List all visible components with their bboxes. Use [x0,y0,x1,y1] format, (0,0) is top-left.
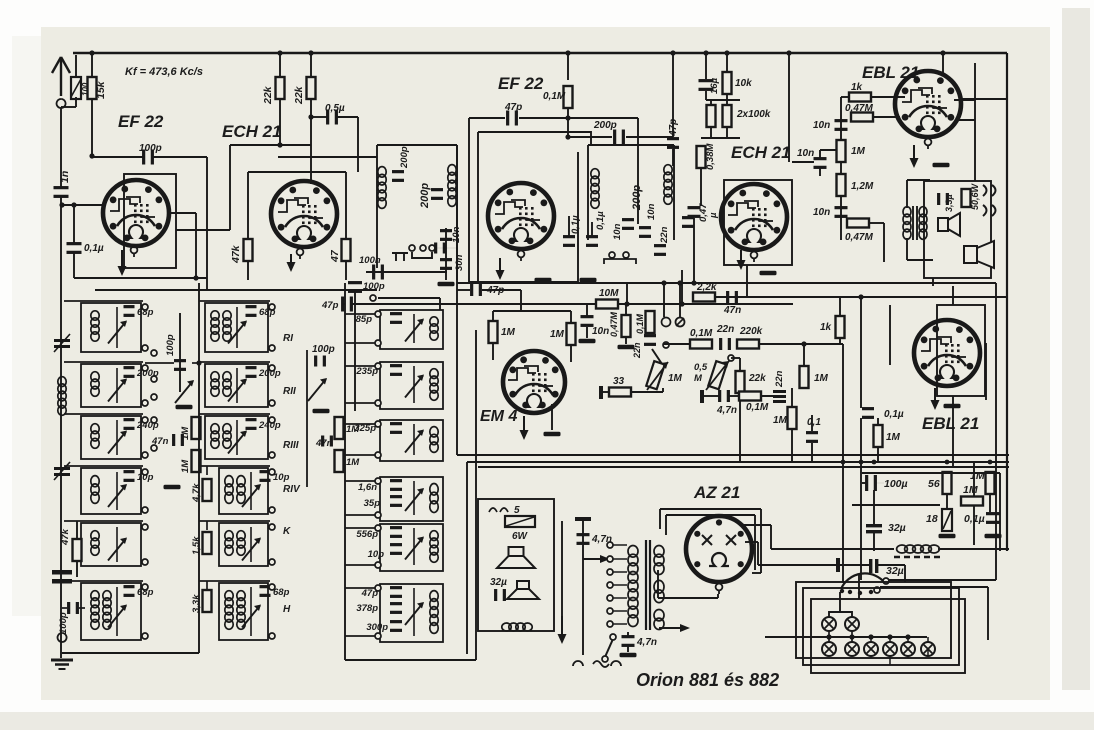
wire [62,607,67,609]
resistor 1M band b [192,450,201,472]
wire padder link [345,514,375,516]
padder terminal [375,311,381,317]
svg-text:0,1M: 0,1M [635,313,645,334]
coil band L5 [91,531,99,556]
capacitor padder 3 [390,422,402,434]
svg-text:16µ: 16µ [709,77,720,94]
wire tap [613,558,627,560]
coil transformer sec heater [654,546,664,575]
svg-text:0,47M: 0,47M [845,103,873,114]
trimmer padder 6 [405,602,424,625]
end bar mains [836,558,840,572]
mains plug symbols [573,661,621,667]
wire 15k to grid line [91,99,93,157]
svg-text:0,1µ: 0,1µ [964,513,985,525]
band terminal [142,584,148,590]
resistor 1M em4 a [489,321,498,343]
padder terminal [375,585,381,591]
capacitor pad feed [348,281,362,293]
wire [792,161,814,163]
junction [193,275,198,280]
svg-text:1k: 1k [851,82,863,93]
wire [520,290,522,311]
switch contact [623,252,629,258]
wire [116,368,118,403]
wire [116,472,118,510]
potentiometer 0,5M tone [706,361,729,390]
wire [770,525,772,549]
junction top bus [565,50,570,55]
wire tap [613,610,627,612]
wire [195,213,197,278]
primary tap 3 [607,569,613,575]
svg-text:1M: 1M [346,457,360,468]
capacitor 300p [390,620,402,632]
junction lamp feed [905,634,910,639]
wire core b [916,206,918,240]
loudspeaker small [938,213,960,236]
wire lamp stub [927,648,929,656]
capacitor padder 6 [390,586,402,598]
box band filter R6 [219,583,268,640]
wire [862,482,866,484]
jack contact b [983,205,996,216]
box speaker unit [924,181,991,278]
wire [567,108,569,137]
wire [987,587,989,640]
wire lamp stub [907,656,909,658]
svg-text:10n: 10n [797,148,814,159]
capacitor 32u electrolytic b [869,559,878,573]
svg-text:4,7n: 4,7n [716,405,737,416]
wire [116,420,118,455]
ground 18 [939,534,956,539]
capacitor 200p IF1 prim [392,170,404,182]
capacitor 240p R3 [246,418,257,430]
wire [878,564,905,566]
wire right rail long [995,283,997,580]
resistor 100k a [707,105,716,127]
wire [625,337,627,344]
wire [681,270,683,304]
tube EM4 body [503,351,565,413]
wire [236,368,238,403]
wire [236,420,238,455]
wire [591,222,593,236]
wire grid cap left [92,156,143,158]
junction low bus [872,460,877,465]
wire osc link b [192,362,199,364]
trimmer band L2 [108,379,127,402]
junction top bus [89,50,94,55]
capacitor 0,5u [326,110,338,125]
svg-text:220k: 220k [739,326,763,337]
resistor 50,6W field [962,189,971,207]
wire az21 out a [744,524,771,526]
wire [345,261,347,280]
svg-text:1n: 1n [59,171,71,183]
capacitor 100p [142,150,154,165]
wire jack drop [663,283,665,317]
wire screen feed down [206,157,208,290]
primary tap 2 [607,556,613,562]
wire [754,515,756,570]
padder terminal [375,512,381,518]
end bar mains top [575,517,591,521]
junction low bus [841,460,846,465]
wire [116,307,118,348]
wire psu top b [862,472,1000,474]
svg-text:100µ: 100µ [884,478,908,490]
capacitor 47p top [506,111,518,126]
box dial lamps outer [796,582,951,658]
svg-text:RII: RII [283,386,296,397]
trimmer band R3 [228,431,247,454]
tube key EF22 no2 [518,251,525,261]
box band filter L4 [81,468,141,514]
wire [61,106,76,108]
capacitor 68p R1 [246,305,257,317]
wire [570,345,572,362]
svg-text:56: 56 [928,478,940,490]
cathode arrow EF22 no1 [118,250,127,276]
capacitor 47p em4 [470,284,482,296]
wire [413,366,415,403]
coil band R6 secondary [237,591,245,630]
capacitor 200p R2 [246,366,257,378]
junction antenna rail [59,202,64,207]
wire [873,533,875,551]
svg-text:EM 4: EM 4 [480,408,517,425]
wire [62,652,199,654]
junction top bus [308,50,313,55]
wire [758,564,869,566]
cathode arrow EBL21 no2 [931,388,940,410]
wire [877,418,879,425]
wire [873,116,900,118]
wire [568,216,570,236]
trimmer band L1 [108,321,127,344]
wire az21 top [660,508,761,510]
junction lamp feed [849,634,854,639]
svg-text:32µ: 32µ [886,565,904,577]
junction [679,301,684,306]
switch terminal [151,376,157,382]
junction [565,134,570,139]
wire ebl drop b [860,418,862,580]
wire [811,415,813,431]
box EF22 no2 shield [469,118,638,282]
wire 47p drop [672,53,674,137]
capacitor 10p R4 [260,470,271,482]
box band filter R3 [205,416,268,459]
wire [717,594,719,598]
junction [196,360,201,365]
coil padder 6 [430,591,438,634]
wire [946,494,948,509]
wire [873,490,875,524]
wire [73,253,75,278]
wire [413,314,415,343]
resistor 10k [723,72,732,94]
box band filter R1 [205,303,268,352]
wire [413,588,415,636]
tube key AZ21 [716,584,723,594]
capacitor 10n IF2 [622,218,634,230]
svg-text:300p: 300p [366,622,388,633]
arrow field [558,616,567,644]
switch bar IF1 [392,252,432,261]
coil band R3 secondary [223,424,231,449]
wire resistor feed [206,466,208,475]
capacitor 47n band [172,434,184,446]
svg-text:10n: 10n [646,203,657,220]
wire pin [954,99,975,101]
wire HT out [771,548,860,550]
svg-text:4,7n: 4,7n [636,637,657,648]
svg-text:100p: 100p [363,281,385,292]
coil padder 4 [430,484,438,513]
capacitor 1n antenna series [54,186,69,198]
wire ECH21 no2 return [746,265,748,297]
svg-text:4,7k: 4,7k [191,483,202,503]
svg-text:85p: 85p [356,314,373,325]
wire [739,358,741,361]
svg-text:1M: 1M [851,146,866,157]
svg-text:10p: 10p [273,472,290,483]
ground 0,1u psu [985,534,1002,539]
wire padder link [345,423,375,425]
padder terminal [375,400,381,406]
coil output transformer secondary [919,207,927,240]
coil band R1 primary [211,311,219,341]
switch arc contact dots [840,589,873,595]
wire az21 out b [745,541,758,543]
wire [907,179,930,181]
left pale strip [12,36,41,616]
band terminal [142,400,148,406]
capacitor padder 4 [390,479,402,491]
capacitor 0,1u a [563,235,575,247]
wire lamp stub [927,637,929,642]
wire [840,97,842,101]
wire [999,473,1001,551]
svg-text:47p: 47p [361,588,379,599]
wire antenna/ground rail [60,197,62,658]
tube ECH21 no1 (mixer-oscillator) [271,181,337,247]
band terminal [269,559,275,565]
wire antenna lead [60,108,62,187]
wire [739,361,741,371]
wire band row link [199,520,270,522]
svg-text:200p: 200p [419,183,431,209]
coupling hooks [489,508,508,512]
wire psu mid [852,504,940,506]
primary tap 7 [607,621,613,627]
dial lamp 3 [822,642,836,656]
padder terminal [375,452,381,458]
coil band R4 primary [225,476,233,504]
wire tap [613,544,627,546]
svg-text:0,1µ: 0,1µ [570,215,581,234]
capacitor 100p ant [67,602,79,614]
arrow rect out [680,624,690,632]
box band filter L5 [81,523,141,566]
svg-text:18: 18 [926,513,938,525]
wire [492,311,494,321]
svg-text:0,47: 0,47 [698,203,709,222]
hook antenna bottom [58,633,67,642]
box band filter L1 [81,303,141,352]
svg-text:Orion 881 és 882: Orion 881 és 882 [636,670,779,690]
wire [820,149,841,151]
svg-text:0,1M: 0,1M [543,91,566,102]
wire grid cap right [153,156,207,158]
wire [279,53,281,77]
junction low bus [859,460,864,465]
capacitor 16u electrolytic [699,79,714,91]
svg-text:22n: 22n [716,324,734,335]
svg-text:378p: 378p [356,603,378,614]
switch contact b [610,634,616,640]
wire [116,587,118,636]
wire padder link [345,454,375,456]
resistor 4,7k [203,479,212,501]
resistor 0,47M avc [622,315,631,337]
wire [760,509,762,573]
wire lamp link a [828,631,830,642]
band terminal [142,345,148,351]
junction [624,301,629,306]
wire band row link [199,465,270,467]
band terminal [269,524,275,530]
switch arc contact b [874,587,880,593]
coil IF2 secondary [664,165,672,205]
switch terminal [151,417,157,423]
tone contact [728,355,734,361]
svg-text:EBL 21: EBL 21 [862,63,919,82]
junction [277,142,282,147]
resistor 47 [342,239,351,261]
cathode arrow EBL21 no1 [910,145,919,168]
capacitor 10n c [835,206,848,218]
svg-text:1M: 1M [346,424,360,435]
svg-text:47n: 47n [723,305,741,316]
resistor 100k b [723,105,732,127]
svg-text:1M: 1M [814,373,829,384]
wire IF1 right [456,145,458,280]
ground EBL21 no2 [944,404,961,409]
wire [625,304,627,315]
wire [752,572,761,574]
svg-text:0,1: 0,1 [807,417,821,428]
wire [250,527,252,562]
capacitor 100p osc b [372,265,384,280]
capacitor 100u electrolytic [865,475,877,491]
wire tap [613,597,627,599]
wire core b [649,540,651,630]
svg-text:1M: 1M [501,327,516,338]
wire [710,100,712,105]
wire osc line [366,271,447,273]
resistor 1,2M [837,174,846,196]
svg-text:22n: 22n [632,342,642,359]
capacitor 22n tone stack [773,390,786,403]
junction lamp feed [826,634,831,639]
resistor 1M ebl [874,425,883,447]
wire [76,521,78,539]
wire [586,304,588,316]
wire [247,261,249,280]
wire [938,548,1009,550]
svg-text:47k: 47k [60,528,71,546]
wire band row link [199,300,270,302]
switch contact [429,245,435,251]
primary tap 4 [607,582,613,588]
svg-text:EF 22: EF 22 [118,112,164,131]
wire [626,283,628,304]
svg-text:RI: RI [283,333,293,344]
wire padder link [345,635,375,637]
wire padder link [345,587,375,589]
wire box ECH21 right [345,172,347,239]
wire [583,558,600,560]
wire [907,259,933,261]
wire to lamp box b [904,565,906,582]
svg-text:0,38M: 0,38M [705,143,716,170]
capacitor 240p L3 [124,418,135,430]
svg-text:100p: 100p [312,344,335,355]
wire rect to az [659,627,680,629]
wire [310,53,312,77]
svg-text:0,1µ: 0,1µ [884,409,904,420]
box EF22 shield [124,174,176,268]
wire band row link [64,361,143,363]
band terminal [142,452,148,458]
resistor 22k a [276,77,285,99]
junction [308,114,313,119]
svg-text:200p: 200p [593,120,617,131]
wire [791,429,793,462]
wire anode to IF1 [278,156,377,158]
wire lamp pair bracket [829,592,852,617]
resistor 1M em4 b [567,323,576,345]
wire [731,357,740,359]
potentiometer 100ohm body [71,77,81,99]
svg-text:10n: 10n [813,207,830,218]
svg-text:10p: 10p [368,549,385,560]
svg-text:1M: 1M [668,373,683,384]
wire padder bottom [345,659,476,661]
junction low bus [988,460,993,465]
svg-text:10n: 10n [592,326,609,337]
wire core a [645,540,647,630]
box padder 4 [380,477,443,521]
junction top bus [786,50,791,55]
capacitor 0,47u IF2 [682,216,694,228]
capacitor 378p [390,602,402,614]
svg-text:0,1µ: 0,1µ [84,243,104,254]
band terminal [269,400,275,406]
wire [457,289,470,291]
svg-text:10n: 10n [612,223,623,240]
svg-text:50,6W: 50,6W [970,182,980,210]
box EBL21 no2 [937,305,985,396]
wire switch to rail b [880,586,988,588]
ground EF22 no2 [580,278,597,283]
coil transformer sec rect [654,610,664,630]
resistor 220k [737,340,759,349]
